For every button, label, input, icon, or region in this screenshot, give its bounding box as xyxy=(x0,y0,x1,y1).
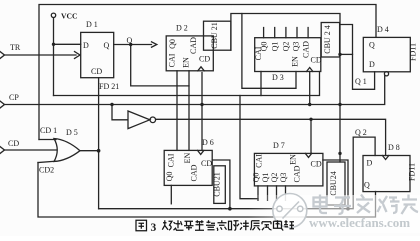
svg-text:Q2: Q2 xyxy=(282,42,291,52)
svg-text:Q0: Q0 xyxy=(165,172,174,182)
svg-text:CAD: CAD xyxy=(293,165,302,182)
caption digit 3 xyxy=(151,222,157,234)
svg-text:CBU24: CBU24 xyxy=(329,171,338,195)
svg-text:CD: CD xyxy=(311,160,322,169)
svg-text:CAI: CAI xyxy=(255,154,264,168)
wire D1 Q output xyxy=(114,44,152,46)
clock triangle D7 xyxy=(305,153,311,157)
label D7 xyxy=(273,141,285,150)
label D8 xyxy=(388,143,400,152)
caption 改进型单稳态脉冲展宽电路 pseudo-glyphs xyxy=(162,220,294,230)
clock triangle D3 xyxy=(307,68,313,72)
svg-text:D 5: D 5 xyxy=(66,128,78,137)
svg-text:CD: CD xyxy=(8,139,19,148)
junction dot 340-104 xyxy=(338,103,341,106)
svg-text:D 4: D 4 xyxy=(377,25,389,34)
caption 图3 pseudo-glyphs xyxy=(136,220,147,231)
wire D3 clock drop to CP xyxy=(309,72,311,105)
svg-text:Q: Q xyxy=(127,36,133,45)
junction dot inverted CP D7 xyxy=(309,118,312,121)
label CBU24 top xyxy=(323,25,332,53)
svg-text:D 2: D 2 xyxy=(176,24,188,33)
wire feedback top loop from D4 xyxy=(39,5,376,140)
arrowhead Q to D2 xyxy=(152,42,157,47)
label CD2 net xyxy=(39,166,54,175)
node OR output junction xyxy=(80,150,99,152)
label Q net xyxy=(127,36,133,45)
svg-text:D 7: D 7 xyxy=(273,141,285,150)
svg-text:CP: CP xyxy=(9,93,19,102)
wire D7 CD to reset line xyxy=(323,160,348,209)
label CD xyxy=(8,139,19,148)
wire node at 340,54 branch xyxy=(340,53,353,55)
label CD1 net xyxy=(40,126,57,135)
label D pin of D1 xyxy=(83,41,89,50)
wire Q to EN bracket xyxy=(131,45,189,86)
wire CBU24 lower stub xyxy=(339,205,341,209)
OR gate D5 xyxy=(54,139,80,162)
clock triangle D8 xyxy=(382,156,388,160)
input chevron CD xyxy=(0,147,5,154)
svg-text:D: D xyxy=(367,159,373,168)
label CD pin of D1 xyxy=(91,67,102,76)
counter aux box CBU24 bottom xyxy=(327,162,345,205)
wire inner bottom return to D8 D input xyxy=(99,137,376,209)
svg-text:FD11: FD11 xyxy=(408,163,417,181)
wire D1 D-input from VCC xyxy=(54,43,81,45)
pin labels D7 rotated xyxy=(252,154,322,183)
pin labels D2 rotated xyxy=(168,37,211,68)
clock arrow into D1 xyxy=(75,52,81,59)
wire feedback bottom loop from D8 Q xyxy=(38,163,376,218)
svg-text:CAD: CAD xyxy=(190,164,199,181)
flip-flop D8 box FD11 xyxy=(363,156,410,192)
label VCC xyxy=(61,12,77,21)
label D2 xyxy=(176,24,188,33)
input chevron TR xyxy=(0,52,5,59)
svg-text:Q3: Q3 xyxy=(292,42,301,52)
label CBU24 bottom xyxy=(329,171,338,195)
svg-text:Q: Q xyxy=(369,41,375,50)
svg-text:Q3: Q3 xyxy=(279,173,288,183)
svg-text:CBU 2 4: CBU 2 4 xyxy=(323,25,332,53)
wire TR input xyxy=(4,54,76,56)
junction dot Q branch xyxy=(129,43,132,46)
label D6 xyxy=(202,138,214,147)
counter aux box CBU21 top xyxy=(204,21,231,50)
pin labels D3 rotated xyxy=(254,41,322,67)
input chevron CP xyxy=(0,101,5,108)
svg-text:Q1: Q1 xyxy=(271,42,280,52)
svg-text:CAI: CAI xyxy=(168,53,177,67)
wire inverter output to D8 clock xyxy=(156,119,386,155)
svg-text:D 1: D 1 xyxy=(86,20,98,29)
svg-text:CAD: CAD xyxy=(302,41,311,58)
wire VCC rail vertical xyxy=(53,18,55,96)
svg-text:CBU 21: CBU 21 xyxy=(210,22,219,48)
label CBU21 top xyxy=(210,22,219,48)
svg-text:D 8: D 8 xyxy=(388,143,400,152)
wire CBU21 to CBU24 top link xyxy=(231,14,340,163)
wire D4 D-input bracket xyxy=(340,25,375,90)
label D pin of D8 xyxy=(367,159,373,168)
clock triangle D6 xyxy=(198,150,204,154)
label Q1 net xyxy=(355,77,367,86)
junction dot 340-54 xyxy=(338,53,341,56)
svg-text:Q 1: Q 1 xyxy=(355,77,367,86)
svg-text:CD: CD xyxy=(91,67,102,76)
counter D6 box CBU21 xyxy=(164,150,212,185)
label Q pin of D8 xyxy=(364,180,370,189)
wire CAI vertical D2 to D6 xyxy=(176,71,178,151)
svg-text:D 6: D 6 xyxy=(202,138,214,147)
wire D3 output stubs Q0-Q3 CAD xyxy=(264,28,309,38)
svg-text:Q: Q xyxy=(104,41,110,50)
label Q2 net xyxy=(355,128,367,137)
wire D2 CAD to D3 EN xyxy=(242,14,296,89)
svg-text:CBU21: CBU21 xyxy=(213,172,222,196)
svg-text:EN: EN xyxy=(289,154,298,165)
wire EN vertical D2 to D6 xyxy=(188,71,190,151)
svg-text:TR: TR xyxy=(10,43,21,52)
svg-text:VCC: VCC xyxy=(61,12,77,21)
counter aux box CBU21 bottom xyxy=(214,166,226,204)
svg-text:FD 21: FD 21 xyxy=(99,82,119,91)
clock bubble D4 xyxy=(384,72,388,76)
svg-text:www.elecfans.com: www.elecfans.com xyxy=(309,215,410,230)
inverter U1 xyxy=(128,111,156,129)
svg-text:EN: EN xyxy=(183,152,192,163)
wire CP input line xyxy=(4,76,385,105)
wire CD1 into OR gate xyxy=(39,139,56,141)
svg-text:CD 1: CD 1 xyxy=(40,126,57,135)
wire D7 clock from inverted CP xyxy=(310,119,312,153)
flip-flop D1 box FD21 xyxy=(81,32,114,77)
svg-text:D: D xyxy=(83,41,89,50)
label D pin of D4 xyxy=(369,60,375,69)
counter aux box CBU24 top xyxy=(321,23,339,58)
svg-text:Q1: Q1 xyxy=(261,173,270,183)
watermark halo xyxy=(248,195,420,233)
svg-text:CD: CD xyxy=(201,159,212,168)
watermark www.elecfans.com xyxy=(309,215,410,230)
junction dot D7 CD xyxy=(346,207,350,211)
svg-text:CD2: CD2 xyxy=(39,166,54,175)
svg-text:CAD: CAD xyxy=(189,37,198,54)
svg-text:Q0: Q0 xyxy=(260,42,269,52)
wire D6 Q0 stub xyxy=(170,185,172,203)
label D3 xyxy=(272,73,284,82)
svg-text:Q0: Q0 xyxy=(252,173,261,183)
svg-text:D 3: D 3 xyxy=(272,73,284,82)
svg-text:EN: EN xyxy=(291,56,300,67)
VCC terminal xyxy=(51,13,55,17)
svg-text:Q: Q xyxy=(364,180,370,189)
counter D7 box CBU24 xyxy=(254,153,323,186)
svg-text:Q 2: Q 2 xyxy=(355,128,367,137)
svg-text:CAI: CAI xyxy=(167,153,176,167)
label Q pin of D1 xyxy=(104,41,110,50)
wire clock vertical D2 to D6 xyxy=(201,73,203,151)
junction dot 340-153 xyxy=(338,152,341,155)
svg-text:FD11: FD11 xyxy=(409,43,418,61)
wire inverter input xyxy=(112,105,128,120)
counter D2 box CBU21 xyxy=(166,36,213,71)
wire CD input to OR gate xyxy=(4,149,57,151)
junction dot CP inverter xyxy=(110,103,113,106)
svg-text:CD: CD xyxy=(199,55,210,64)
label TR xyxy=(10,43,21,52)
wire horizontal rail y95.5 to D3 xyxy=(54,72,320,96)
watermark logo circle xyxy=(273,194,307,228)
label FD11 of D8 xyxy=(408,163,417,181)
svg-text:Q2: Q2 xyxy=(270,173,279,183)
junction dot CP D3 clock xyxy=(308,103,311,106)
label D5 xyxy=(66,128,78,137)
label FD11 of D4 xyxy=(409,43,418,61)
clock triangle D2 xyxy=(198,67,204,71)
svg-text:D: D xyxy=(369,60,375,69)
pin labels D6 rotated xyxy=(165,152,212,181)
wire reset vertical bus xyxy=(98,78,100,209)
junction dot D6 CD xyxy=(228,207,232,211)
label CP xyxy=(9,93,19,102)
label Q pin of D4 xyxy=(369,41,375,50)
label FD21 xyxy=(99,82,119,91)
label D1 xyxy=(86,20,98,29)
wire branch down to D7 CAI xyxy=(240,96,258,199)
wire D6 CD to reset line xyxy=(212,160,230,209)
wire D3 CAI pin drop xyxy=(260,72,262,96)
svg-text:EN: EN xyxy=(182,57,191,68)
flip-flop D4 box FD11 xyxy=(363,37,410,71)
svg-text:3: 3 xyxy=(151,222,157,234)
junction dot OR output xyxy=(97,149,101,153)
junction dot CP D2 clock xyxy=(200,103,203,106)
watermark CJK dianzifashaoyou xyxy=(314,195,419,215)
wire CD2 into OR gate xyxy=(38,161,56,162)
label CBU21 bottom xyxy=(213,172,222,196)
counter D3 box CBU24 xyxy=(255,38,321,72)
svg-text:CD: CD xyxy=(311,56,322,65)
svg-text:Q0: Q0 xyxy=(168,39,177,49)
label D4 xyxy=(377,25,389,34)
junction dot VCC-D xyxy=(52,43,55,46)
wire D7 output stubs Q0-Q3 xyxy=(258,186,286,200)
